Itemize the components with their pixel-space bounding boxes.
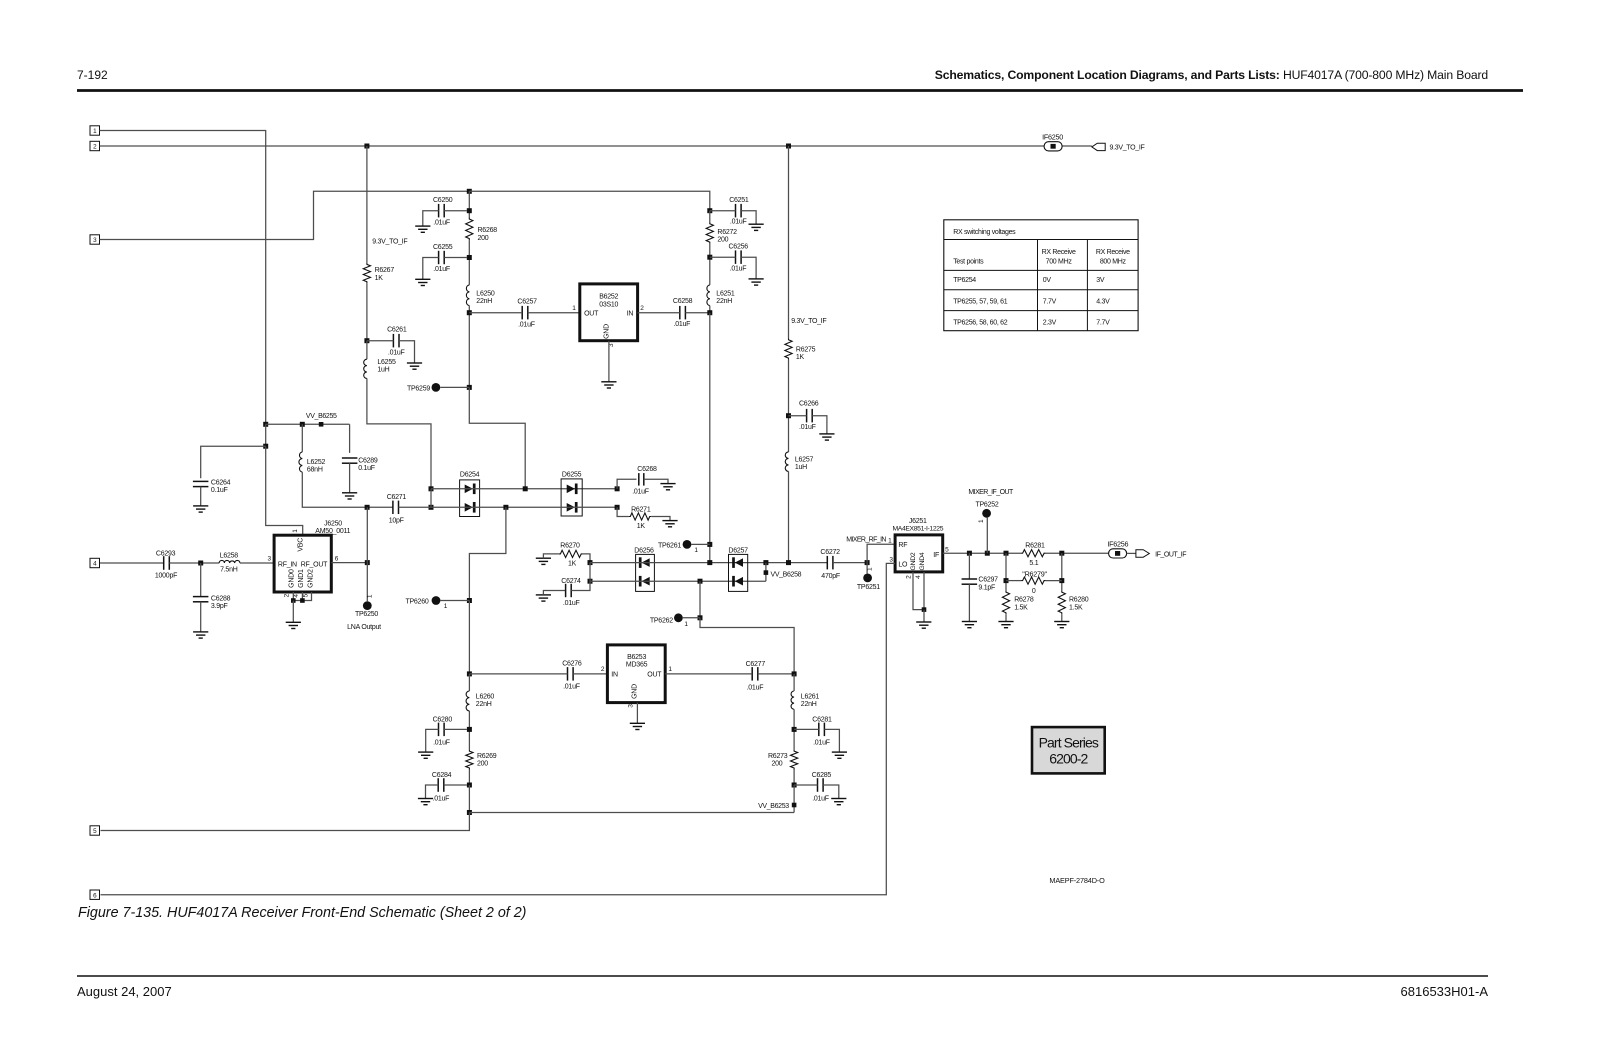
svg-text:D6257: D6257 bbox=[728, 547, 748, 554]
svg-text:.01uF: .01uF bbox=[799, 424, 816, 431]
svg-text:TP6256, 58, 60, 62: TP6256, 58, 60, 62 bbox=[953, 319, 1008, 326]
wire bbox=[366, 563, 368, 602]
IC J6250 bbox=[268, 521, 351, 598]
footer date bbox=[77, 984, 172, 999]
wire bbox=[543, 591, 565, 595]
wire bbox=[793, 709, 795, 749]
node C6257 junction bbox=[467, 310, 472, 315]
wire bbox=[638, 312, 680, 314]
svg-text:C6289: C6289 bbox=[358, 458, 378, 465]
ground (J6250) bbox=[286, 622, 301, 628]
svg-text:700 MHz: 700 MHz bbox=[1046, 259, 1073, 266]
wire bbox=[430, 489, 432, 508]
wire bbox=[100, 131, 266, 425]
svg-text:C6281: C6281 bbox=[812, 717, 832, 724]
wire bbox=[1061, 614, 1063, 621]
svg-text:L6258: L6258 bbox=[220, 553, 239, 560]
capacitor C6271 bbox=[387, 494, 407, 524]
header page number bbox=[77, 68, 108, 82]
resistor R6270 bbox=[559, 543, 583, 568]
wire bbox=[788, 360, 790, 452]
svg-text:1K: 1K bbox=[375, 275, 384, 282]
node TP6262 junction top bbox=[698, 579, 703, 584]
node R6271 junction bbox=[615, 505, 620, 510]
ground (C6250) bbox=[415, 226, 430, 232]
node J6250 gnd junction 2 bbox=[300, 598, 305, 603]
svg-text:1K: 1K bbox=[637, 523, 646, 530]
wire bbox=[169, 562, 219, 564]
svg-text:C6268: C6268 bbox=[637, 466, 657, 473]
svg-text:L6255: L6255 bbox=[377, 359, 396, 366]
svg-text:R6280: R6280 bbox=[1069, 597, 1089, 604]
wire bbox=[923, 572, 925, 610]
svg-text:IN: IN bbox=[627, 310, 634, 317]
svg-text:GND1: GND1 bbox=[298, 569, 305, 588]
svg-text:D6254: D6254 bbox=[460, 472, 480, 479]
test point TP6261 bbox=[658, 540, 698, 554]
svg-text:.01uF: .01uF bbox=[730, 266, 747, 273]
wire bbox=[617, 507, 629, 516]
svg-text:1uH: 1uH bbox=[377, 366, 389, 373]
svg-text:VV_B6253: VV_B6253 bbox=[758, 803, 789, 810]
resistor R6278 bbox=[1002, 591, 1034, 615]
wire bbox=[367, 506, 393, 508]
net label 9.3V_TO_IF (R6267) bbox=[372, 239, 407, 246]
svg-text:C6272: C6272 bbox=[820, 549, 840, 556]
node L6252 top junction bbox=[300, 422, 305, 427]
wire bbox=[469, 812, 794, 814]
svg-text:GND: GND bbox=[631, 684, 638, 699]
wire bbox=[302, 472, 367, 507]
capacitor C6288 bbox=[193, 596, 231, 611]
wire bbox=[266, 446, 303, 535]
svg-text:TP6251: TP6251 bbox=[857, 584, 880, 591]
wire bbox=[573, 673, 607, 675]
wire bbox=[367, 340, 394, 342]
ground (C6274) bbox=[536, 595, 551, 601]
test point TP6251 bbox=[857, 567, 880, 591]
node VV_B6255 label dot bbox=[319, 422, 324, 427]
svg-text:C6297: C6297 bbox=[978, 577, 998, 584]
svg-text:D6255: D6255 bbox=[562, 472, 582, 479]
svg-text:L6261: L6261 bbox=[801, 694, 820, 701]
wire bbox=[741, 211, 756, 225]
svg-text:C6251: C6251 bbox=[729, 197, 749, 204]
wire bbox=[709, 211, 711, 223]
svg-text:TP6252: TP6252 bbox=[975, 502, 998, 509]
node VV_B6258 dot bbox=[764, 570, 769, 575]
svg-text:200: 200 bbox=[772, 761, 783, 768]
svg-text:J6250: J6250 bbox=[324, 521, 342, 528]
svg-text:.01uF: .01uF bbox=[812, 796, 829, 803]
IC B6253 bbox=[601, 645, 673, 708]
node C6266 junction bbox=[786, 413, 791, 418]
capacitor C6266 bbox=[799, 401, 819, 431]
svg-text:VV_B6255: VV_B6255 bbox=[306, 413, 337, 420]
svg-text:0.1uF: 0.1uF bbox=[211, 487, 228, 494]
connector pin 1 bbox=[90, 126, 100, 135]
wire bbox=[292, 592, 294, 601]
svg-text:RX Receive: RX Receive bbox=[1042, 249, 1076, 256]
svg-text:6200-2: 6200-2 bbox=[1049, 751, 1088, 767]
svg-text:R6270: R6270 bbox=[560, 543, 580, 550]
ground (C6297) bbox=[962, 622, 977, 628]
svg-text:800 MHz: 800 MHz bbox=[1100, 259, 1127, 266]
wire bbox=[1006, 580, 1021, 582]
svg-text:.01uF: .01uF bbox=[632, 488, 649, 495]
wire bbox=[986, 518, 988, 554]
node TP6252 junction bbox=[985, 551, 990, 556]
node C6285 junction bbox=[792, 783, 797, 788]
svg-text:3.9pF: 3.9pF bbox=[211, 603, 228, 610]
ferrite bead IF6256 bbox=[1107, 540, 1128, 558]
svg-text:GND2: GND2 bbox=[307, 569, 314, 588]
diode pair D6256 bbox=[634, 547, 654, 591]
wire bbox=[1005, 614, 1007, 621]
svg-text:1uH: 1uH bbox=[795, 464, 807, 471]
node C6255 junction bbox=[467, 255, 472, 260]
wire bbox=[367, 378, 431, 488]
svg-text:22nH: 22nH bbox=[476, 298, 492, 305]
svg-text:RF_OUT: RF_OUT bbox=[301, 561, 328, 568]
wire bbox=[1046, 580, 1062, 582]
wire bbox=[240, 562, 274, 564]
figure caption bbox=[78, 905, 526, 921]
wire bbox=[741, 257, 756, 279]
resistor R6272 bbox=[706, 222, 737, 243]
wire bbox=[426, 785, 439, 799]
node R6279 right junction bbox=[1059, 578, 1064, 583]
wire bbox=[968, 553, 970, 579]
node C6280 junction bbox=[467, 727, 472, 732]
wire bbox=[1127, 552, 1136, 554]
wire bbox=[794, 728, 819, 730]
capacitor C6250 bbox=[433, 197, 453, 226]
wire bbox=[691, 543, 709, 545]
wire bbox=[399, 341, 415, 363]
capacitor C6268 bbox=[632, 466, 657, 495]
svg-text:C6288: C6288 bbox=[211, 596, 231, 603]
footer document number bbox=[1401, 984, 1489, 999]
test point TP6250 bbox=[347, 594, 381, 631]
wire bbox=[583, 554, 590, 563]
svg-text:L6251: L6251 bbox=[716, 291, 735, 298]
svg-text:C6257: C6257 bbox=[517, 298, 537, 305]
part series box bbox=[1032, 727, 1105, 773]
svg-text:1.5K: 1.5K bbox=[1069, 604, 1083, 611]
wire bbox=[700, 618, 794, 674]
wire bbox=[366, 146, 368, 263]
inductor L6258 bbox=[219, 553, 240, 574]
svg-text:L6252: L6252 bbox=[307, 459, 326, 466]
svg-text:Figure 7-135. HUF4017A Receive: Figure 7-135. HUF4017A Receiver Front-En… bbox=[78, 905, 526, 921]
wire bbox=[788, 146, 790, 338]
svg-text:.01uF: .01uF bbox=[518, 322, 535, 329]
wire bbox=[758, 673, 794, 675]
svg-text:22nH: 22nH bbox=[476, 701, 492, 708]
node B6253 feed junction bbox=[503, 505, 508, 510]
connector arrow IF_OUT_IF bbox=[1136, 550, 1149, 558]
ground (C6251) bbox=[749, 224, 764, 230]
diode pair D6254 bbox=[460, 472, 480, 517]
wire bbox=[301, 592, 303, 601]
svg-text:R6271: R6271 bbox=[631, 506, 651, 513]
wire bbox=[683, 617, 700, 619]
capacitor C6280 bbox=[433, 717, 453, 747]
wire bbox=[366, 283, 368, 341]
node C6284 junction bbox=[467, 783, 472, 788]
wire bbox=[440, 386, 469, 388]
svg-text:OUT: OUT bbox=[647, 671, 662, 678]
svg-text:03S10: 03S10 bbox=[599, 301, 618, 308]
svg-text:AM50_0011: AM50_0011 bbox=[315, 528, 350, 535]
wire bbox=[709, 313, 711, 563]
svg-text:.01uF: .01uF bbox=[730, 219, 747, 226]
svg-text:B6252: B6252 bbox=[599, 294, 618, 301]
svg-text:IF6256: IF6256 bbox=[1107, 540, 1128, 549]
wire bbox=[823, 785, 839, 799]
wire bbox=[589, 563, 591, 582]
wire bbox=[469, 312, 522, 314]
svg-text:LO: LO bbox=[898, 561, 908, 568]
capacitor C6257 bbox=[517, 298, 537, 328]
capacitor C6255 bbox=[433, 244, 453, 273]
net label IF_OUT_IF bbox=[1155, 551, 1186, 558]
resistor R6273 bbox=[768, 750, 798, 770]
ground (C6268) bbox=[660, 484, 675, 490]
table RX switching voltages bbox=[944, 220, 1138, 331]
svg-text:.01uF: .01uF bbox=[674, 321, 691, 328]
svg-text:4.3V: 4.3V bbox=[1096, 298, 1110, 305]
svg-text:L6250: L6250 bbox=[476, 291, 495, 298]
inductor L6251 bbox=[707, 285, 735, 306]
wire bbox=[590, 580, 766, 582]
svg-text:GND: GND bbox=[604, 324, 611, 339]
wire bbox=[943, 552, 1021, 554]
resistor R6271 bbox=[629, 506, 651, 530]
node C6251 junction bbox=[707, 208, 712, 213]
wire bbox=[685, 312, 709, 314]
wire bbox=[710, 210, 736, 212]
svg-text:200: 200 bbox=[477, 761, 488, 768]
capacitor C6264 bbox=[193, 479, 231, 494]
svg-text:.01uF: .01uF bbox=[563, 600, 580, 607]
wire bbox=[651, 517, 670, 521]
resistor R6280 bbox=[1058, 591, 1089, 615]
svg-text:0V: 0V bbox=[1043, 277, 1052, 284]
wire bbox=[331, 562, 367, 564]
wire bbox=[200, 563, 202, 597]
svg-text:C6280: C6280 bbox=[433, 717, 453, 724]
test point TP6262 bbox=[650, 613, 688, 628]
test point TP6252 bbox=[975, 502, 998, 523]
test point TP6259 bbox=[407, 383, 440, 392]
ground (C6289) bbox=[342, 493, 357, 499]
wire bbox=[444, 257, 467, 259]
svg-text:MA4EX851-I-1225: MA4EX851-I-1225 bbox=[892, 525, 943, 532]
ground (R6270) bbox=[536, 558, 551, 564]
wire bbox=[968, 584, 970, 621]
ground (C6256) bbox=[749, 279, 764, 285]
svg-text:1.5K: 1.5K bbox=[1014, 604, 1028, 611]
inductor L6257 bbox=[785, 452, 813, 472]
node RF_OUT junction bbox=[365, 560, 370, 565]
node C6268 junction bbox=[615, 486, 620, 491]
svg-text:C6284: C6284 bbox=[432, 772, 452, 779]
wire bbox=[266, 423, 350, 425]
node rail-B top junction bbox=[467, 189, 472, 194]
svg-text:GND4: GND4 bbox=[919, 552, 926, 570]
node VV_B6253 dot bbox=[792, 803, 797, 808]
svg-text:10pF: 10pF bbox=[389, 517, 404, 524]
connector pin 5 bbox=[90, 826, 100, 835]
inductor L6252 bbox=[299, 452, 326, 474]
capacitor C6276 bbox=[562, 661, 582, 691]
diode pair D6255 bbox=[561, 472, 582, 517]
wire bbox=[201, 446, 266, 478]
ground (C6266) bbox=[819, 434, 834, 440]
wire bbox=[528, 312, 580, 314]
svg-text:B6253: B6253 bbox=[627, 654, 646, 661]
svg-text:TP6255, 57, 59, 61: TP6255, 57, 59, 61 bbox=[953, 298, 1008, 305]
svg-text:C6256: C6256 bbox=[729, 244, 749, 251]
resistor R6281 bbox=[1021, 543, 1046, 568]
svg-text:TP6260: TP6260 bbox=[405, 599, 428, 606]
inductor L6260 bbox=[466, 691, 494, 711]
svg-text:LNA Output: LNA Output bbox=[347, 624, 381, 631]
svg-text:R6267: R6267 bbox=[375, 267, 395, 274]
wire bbox=[789, 415, 807, 417]
svg-text:68nH: 68nH bbox=[307, 467, 323, 474]
drawing number MAEPF bbox=[1049, 876, 1105, 885]
node VV_B6255 junction bbox=[263, 422, 268, 427]
wire bbox=[608, 341, 610, 382]
wire bbox=[571, 581, 590, 590]
wire bbox=[469, 387, 525, 488]
ground (J6251) bbox=[916, 622, 931, 628]
header rule bbox=[77, 89, 1523, 92]
svg-text:MIXER_RF_IN: MIXER_RF_IN bbox=[846, 536, 886, 543]
ground (C6281) bbox=[832, 752, 847, 758]
svg-text:R6281: R6281 bbox=[1025, 543, 1045, 550]
svg-text:C6274: C6274 bbox=[561, 578, 581, 585]
resistor R6279 bbox=[1021, 570, 1047, 595]
wire bbox=[440, 600, 469, 602]
header title bbox=[935, 68, 1488, 82]
wire bbox=[793, 674, 795, 691]
wire bbox=[1061, 553, 1063, 590]
svg-text:RX Receive: RX Receive bbox=[1096, 249, 1130, 256]
wire bbox=[292, 601, 294, 623]
svg-text:470pF: 470pF bbox=[821, 573, 840, 580]
svg-text:C6271: C6271 bbox=[387, 494, 407, 501]
net label 9.3V_TO_IF (R6275) bbox=[791, 318, 826, 325]
node R6280 junction bbox=[1059, 551, 1064, 556]
wire bbox=[665, 673, 752, 675]
svg-text:0: 0 bbox=[1032, 588, 1036, 595]
node C6297 junction bbox=[967, 551, 972, 556]
connector arrow 9.3V_TO_IF bbox=[1092, 143, 1105, 150]
svg-text:MIXER_IF_OUT: MIXER_IF_OUT bbox=[968, 489, 1014, 496]
svg-text:2.3V: 2.3V bbox=[1043, 319, 1057, 326]
svg-text:RF: RF bbox=[898, 542, 907, 549]
capacitor C6261 bbox=[387, 326, 407, 356]
ground (C6255) bbox=[415, 279, 430, 285]
wire bbox=[709, 306, 711, 313]
wire bbox=[794, 784, 817, 786]
wire bbox=[469, 191, 710, 210]
wire bbox=[366, 507, 368, 562]
svg-text:IF: IF bbox=[933, 552, 939, 559]
svg-text:.01uF: .01uF bbox=[563, 683, 580, 690]
node C6250 junction bbox=[467, 208, 472, 213]
svg-text:C6250: C6250 bbox=[433, 197, 453, 204]
wire bbox=[468, 674, 470, 691]
svg-text:R6272: R6272 bbox=[717, 229, 737, 236]
node VV_B6258 top junction bbox=[763, 560, 768, 565]
capacitor C6258 bbox=[673, 298, 693, 328]
ground (B6252 pin3) bbox=[601, 382, 616, 388]
svg-text:.01uF: .01uF bbox=[433, 740, 450, 747]
node C6281 junction bbox=[792, 727, 797, 732]
capacitor C6284 bbox=[432, 772, 452, 803]
ground (C6264) bbox=[193, 506, 208, 512]
wire bbox=[100, 145, 1045, 147]
svg-text:"R6279": "R6279" bbox=[1022, 570, 1047, 579]
svg-text:1K: 1K bbox=[796, 354, 805, 361]
wire bbox=[709, 244, 711, 285]
svg-text:R6275: R6275 bbox=[796, 346, 816, 353]
wire bbox=[100, 191, 470, 239]
wire bbox=[1062, 145, 1092, 147]
wire bbox=[366, 341, 368, 360]
wire bbox=[644, 479, 668, 483]
wire bbox=[824, 729, 839, 752]
svg-text:C6264: C6264 bbox=[211, 479, 231, 486]
node rail-C bottom junction bbox=[707, 560, 712, 565]
node W1 junction bbox=[523, 486, 528, 491]
net label VV_B6255 bbox=[306, 413, 337, 420]
resistor R6268 bbox=[466, 218, 498, 242]
svg-text:22nH: 22nH bbox=[801, 701, 817, 708]
node TP6261 junction bbox=[707, 542, 712, 547]
node TP6260 junction bbox=[467, 598, 472, 603]
wire bbox=[349, 463, 351, 493]
wire bbox=[444, 210, 467, 212]
wire bbox=[100, 562, 164, 564]
svg-text:7.7V: 7.7V bbox=[1043, 298, 1057, 305]
svg-text:C6255: C6255 bbox=[433, 244, 453, 251]
wire bbox=[468, 770, 470, 786]
resistor R6269 bbox=[466, 750, 497, 770]
node TP6259 junction bbox=[467, 385, 472, 390]
wire bbox=[444, 784, 467, 786]
wire bbox=[1046, 552, 1109, 554]
connector pin 4 bbox=[90, 558, 100, 567]
resistor R6275 bbox=[785, 338, 816, 361]
svg-text:.01uF: .01uF bbox=[433, 220, 450, 227]
node TP6262 junction bbox=[698, 615, 703, 620]
node D6254 anode junction bbox=[429, 486, 434, 491]
wire bbox=[200, 602, 202, 632]
node C6288 junction bbox=[198, 561, 203, 566]
svg-text:5.1: 5.1 bbox=[1029, 560, 1038, 567]
capacitor C6293 bbox=[155, 550, 177, 579]
wire bbox=[812, 416, 827, 434]
wire bbox=[923, 610, 925, 622]
svg-text:R6268: R6268 bbox=[478, 227, 498, 234]
wire bbox=[349, 424, 351, 453]
